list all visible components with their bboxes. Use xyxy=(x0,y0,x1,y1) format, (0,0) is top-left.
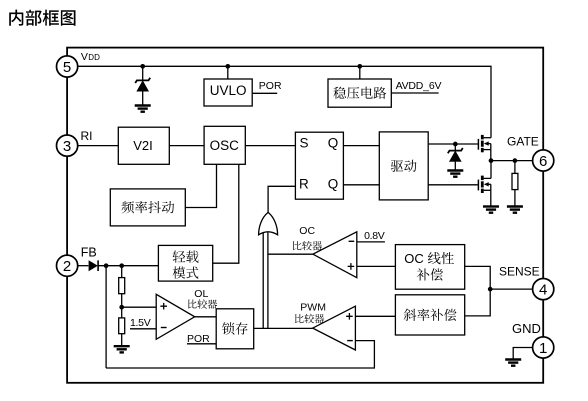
wire resistor to ground xyxy=(514,190,516,206)
node VDD-UVLO junction xyxy=(225,64,230,69)
OC comparator - sign xyxy=(349,240,355,242)
svg-text:S: S xyxy=(300,135,309,150)
wire OR input right (from OC comparator) xyxy=(267,233,269,329)
svg-text:2: 2 xyxy=(63,258,71,275)
wire divider tap to OL comparator + input xyxy=(122,306,157,308)
node FB-bottom-wire junction xyxy=(104,263,109,268)
zener diode D1 (VDD clamp) xyxy=(135,78,150,105)
transistor lower NMOS (pull-down) xyxy=(478,161,491,193)
wire OSC to light-load block xyxy=(213,164,239,263)
wire latch Q to driver xyxy=(343,145,379,147)
or-gate reset logic xyxy=(259,212,278,234)
wire OSC to jitter block xyxy=(185,164,216,207)
op-amp OL comparator xyxy=(156,294,195,339)
IC boundary box xyxy=(67,48,543,383)
wire VDD to UVLO xyxy=(227,66,229,79)
svg-text:GND: GND xyxy=(512,321,541,336)
svg-text:FB: FB xyxy=(81,245,97,259)
label OC比较器 xyxy=(293,241,322,251)
block light-load mode 轻载模式 xyxy=(158,245,212,281)
label 斜率补偿 xyxy=(404,309,457,321)
op-amp PWM comparator xyxy=(313,306,356,350)
PWM comparator - sign xyxy=(347,340,353,342)
wire V2I to OSC xyxy=(169,145,204,147)
wire R1 to divider node xyxy=(121,294,123,318)
ground below lower MOSFET xyxy=(483,207,499,213)
block voltage regulator 稳压电路 xyxy=(328,79,391,107)
node FB-divider junction xyxy=(119,263,124,268)
wire OC comparator output to OR gate xyxy=(268,253,313,255)
OL comparator + sign xyxy=(160,303,167,310)
svg-text:POR: POR xyxy=(259,80,282,92)
wire OSC to latch S input xyxy=(245,145,295,147)
svg-text:DD: DD xyxy=(88,53,100,62)
resistor R2 xyxy=(119,318,125,334)
resistor R1 xyxy=(119,278,125,294)
block frequency jitter 频率抖动 xyxy=(110,189,185,226)
node gate-resistor junction xyxy=(513,158,518,163)
block SR latch U-latch xyxy=(295,132,343,199)
svg-text:0.8V: 0.8V xyxy=(364,230,385,242)
wire OC compensation to SENSE node xyxy=(465,266,491,289)
svg-text:OC: OC xyxy=(299,225,315,237)
svg-text:GATE: GATE xyxy=(507,135,539,149)
pin 1 GND xyxy=(533,337,554,358)
wire R2 to ground xyxy=(121,334,123,346)
node VDD-regulator junction xyxy=(357,64,362,69)
svg-text:4: 4 xyxy=(539,281,547,298)
svg-text:1.5V: 1.5V xyxy=(130,317,151,329)
wire latch Qbar to driver xyxy=(343,184,379,186)
block V2I xyxy=(118,127,169,164)
pin 4 SENSE xyxy=(533,279,554,300)
svg-text:AVDD_6V: AVDD_6V xyxy=(396,80,442,92)
svg-text:V2I: V2I xyxy=(133,138,153,153)
wire FB node to resistor R1 xyxy=(121,266,123,278)
pin 5 VDD xyxy=(57,56,78,77)
svg-text:RI: RI xyxy=(81,129,93,143)
svg-text:Q: Q xyxy=(328,177,339,192)
PWM comparator + sign xyxy=(346,313,353,320)
op-amp OC comparator xyxy=(313,232,357,278)
label 稳压电路 xyxy=(333,87,386,99)
block UVLO xyxy=(204,79,252,106)
svg-text:1: 1 xyxy=(539,340,547,357)
svg-text:V: V xyxy=(81,51,88,63)
svg-text:OC: OC xyxy=(404,251,424,266)
block OSC xyxy=(204,126,245,164)
svg-text:5: 5 xyxy=(63,59,71,76)
wire VDD rail from pin5 to MOSFET drain xyxy=(78,66,491,137)
transistor upper NMOS (pull-up) xyxy=(478,135,491,152)
wire pin2 FB to diode xyxy=(78,265,88,267)
pin 2 FB xyxy=(57,255,78,276)
ground below R2 xyxy=(114,346,130,352)
node SENSE junction xyxy=(488,287,493,292)
label 锁存 xyxy=(222,322,248,334)
wire node to zener D2 xyxy=(454,144,456,150)
wire driver to lower MOSFET gate xyxy=(428,184,478,186)
wire diode to light-load block xyxy=(98,265,159,267)
label 线性 xyxy=(428,252,454,264)
block slope compensation 斜率补偿 xyxy=(395,295,464,335)
node divider tap xyxy=(119,305,124,310)
ground below gate resistor xyxy=(507,207,523,213)
node MOSFET midpoint xyxy=(489,158,494,163)
OL comparator - sign xyxy=(161,327,167,329)
label 驱动 xyxy=(391,160,417,172)
wire lower MOSFET source to ground xyxy=(490,190,492,206)
label 补偿 xyxy=(417,268,443,280)
svg-text:UVLO: UVLO xyxy=(210,83,247,98)
wire 1.5V to OL comparator - input xyxy=(130,328,156,330)
wire driver to upper MOSFET gate xyxy=(428,143,478,145)
wire VDD to zener D1 xyxy=(142,66,144,80)
ground below D2 xyxy=(447,171,463,177)
zener diode D2 (gate clamp) xyxy=(448,148,463,170)
node VDD-zener junction xyxy=(140,64,145,69)
wire OC comparator + input to OC compensation xyxy=(357,265,396,267)
wire RI pin to V2I xyxy=(78,145,118,147)
block latch 锁存 xyxy=(216,309,254,349)
svg-text:SENSE: SENSE xyxy=(499,265,540,279)
pin 3 RI xyxy=(57,135,78,156)
ground at GND pin xyxy=(505,360,521,366)
label OL比较器 xyxy=(188,299,217,309)
wire OL comparator output to latch xyxy=(195,316,217,318)
svg-text:OL: OL xyxy=(194,288,208,300)
pin 6 GATE xyxy=(533,150,554,171)
node driver-zener junction xyxy=(453,142,458,147)
svg-text:OSC: OSC xyxy=(210,138,240,153)
label 轻载 xyxy=(173,251,199,263)
diode D3 (FB input) xyxy=(89,260,98,271)
label 频率抖动 xyxy=(122,201,175,214)
block OC linear compensation OC线性补偿 xyxy=(395,245,464,290)
wire gate node to pin 6 xyxy=(491,160,533,162)
wire FB node down to bottom rail xyxy=(105,266,107,368)
svg-text:PWM: PWM xyxy=(300,302,326,314)
wire latch output / PWM output rail to OR inputs xyxy=(254,327,313,329)
label PWM比较器 xyxy=(295,314,324,324)
wire node to resistor R-gate xyxy=(514,161,516,174)
wire OR gate output to latch R input xyxy=(268,186,295,213)
title label 内部框图 (internal block diagram) xyxy=(9,10,75,26)
wire PWM + input to slope compensation xyxy=(355,315,395,317)
OC comparator + sign xyxy=(348,263,355,270)
svg-text:POR: POR xyxy=(187,333,210,345)
wire OR input left (from latch/PWM rail) xyxy=(262,233,264,329)
block driver 驱动 xyxy=(379,132,428,200)
ground below D1 xyxy=(135,106,151,112)
label 模式 xyxy=(173,267,199,279)
wire slope compensation to SENSE node xyxy=(465,289,491,316)
wire pin1 GND to ground symbol xyxy=(513,348,532,359)
wire bottom rail to PWM inverting input xyxy=(106,341,374,368)
svg-text:Q: Q xyxy=(328,135,339,150)
svg-text:3: 3 xyxy=(63,138,71,155)
wire upper MOSFET source to gate node xyxy=(490,150,492,161)
svg-text:6: 6 xyxy=(539,153,547,170)
resistor R-gate xyxy=(512,173,518,189)
wire SENSE node to pin 4 xyxy=(490,288,532,290)
svg-text:R: R xyxy=(299,177,309,192)
wire VDD to regulator xyxy=(359,66,361,79)
